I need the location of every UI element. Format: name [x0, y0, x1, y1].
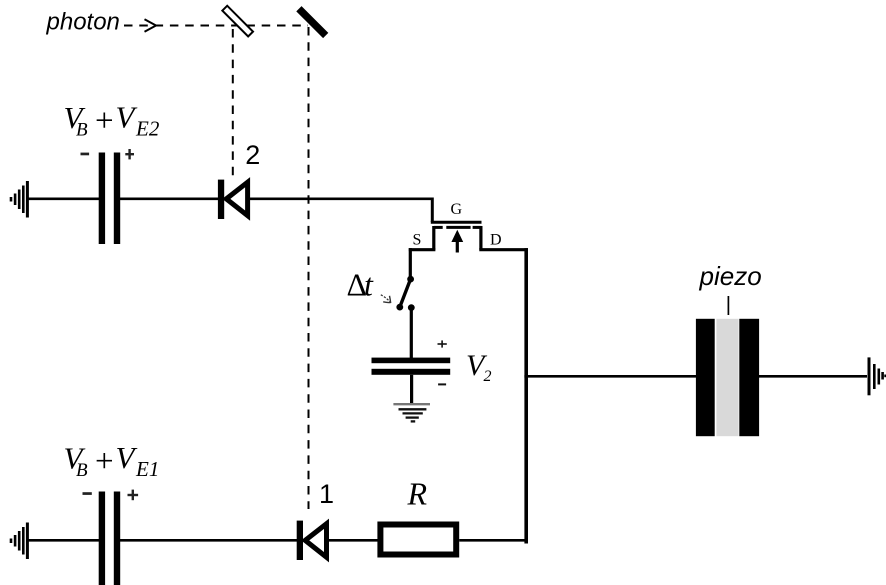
label 1	[319, 479, 334, 509]
wire ground to battery VB+VE2	[28, 198, 99, 201]
piezo label pointer	[727, 296, 729, 315]
switch S1	[396, 276, 414, 311]
wire ground to battery VB+VE1	[28, 539, 99, 542]
transistor Q1 source lead	[409, 226, 436, 250]
transistor Q1 bulk arrow	[451, 230, 463, 253]
ground below capacitor V2	[393, 404, 430, 421]
svg-text:D: D	[490, 232, 502, 249]
battery VB+VE1 polarity marks	[83, 490, 139, 501]
svg-text:+: +	[95, 103, 114, 139]
resistor R	[380, 525, 456, 555]
svg-text:t: t	[364, 267, 374, 303]
wire drain node to piezo	[524, 375, 696, 378]
label VB+VE2	[64, 100, 160, 141]
label VB+VE1	[64, 440, 160, 481]
wire piezo to right ground	[759, 375, 867, 378]
wire resistor to drain node	[459, 539, 528, 542]
wire dashed photon beam horizontal	[124, 25, 308, 27]
ground bottom-left	[11, 523, 27, 560]
svg-text:2: 2	[245, 140, 260, 170]
svg-text:photon: photon	[46, 9, 120, 36]
transistor Q1 drain lead	[479, 226, 528, 250]
label photon	[46, 9, 120, 36]
photon beam arrowhead	[145, 19, 157, 31]
mirror	[299, 9, 326, 36]
wire battery to photodiode 2	[120, 198, 218, 201]
photodiode 2	[218, 180, 248, 219]
svg-text:B: B	[76, 119, 88, 140]
beamsplitter	[222, 6, 253, 37]
transistor Q1 MOSFET channel (dashed)	[434, 226, 481, 229]
svg-text:2: 2	[484, 368, 492, 385]
capacitor V2 polarity marks	[438, 340, 447, 385]
svg-text:E2: E2	[135, 117, 160, 141]
svg-text:B: B	[76, 460, 88, 481]
pin label D	[490, 232, 502, 249]
svg-text:R: R	[407, 476, 428, 512]
label V2	[466, 349, 492, 385]
ground right	[869, 357, 886, 395]
wire drain down right side	[524, 248, 528, 543]
delta-t pointer arrow	[381, 295, 391, 303]
wire source to switch	[409, 248, 412, 280]
label R	[407, 476, 428, 512]
svg-text:E1: E1	[135, 457, 159, 481]
wire switch to capacitor V2	[410, 308, 413, 358]
ground top-left	[11, 181, 27, 218]
svg-text:V: V	[116, 440, 138, 475]
svg-text:G: G	[451, 201, 463, 218]
wire dashed beam to photodiode 2	[232, 29, 234, 176]
wire photodiode 1 to resistor R	[329, 539, 378, 542]
wire battery to photodiode 1	[120, 539, 297, 542]
capacitor C2 (V2)	[372, 358, 451, 375]
label delta-t	[347, 267, 375, 303]
label piezo	[699, 261, 762, 291]
svg-text:piezo: piezo	[699, 261, 762, 291]
battery VB+VE1	[99, 492, 121, 585]
transistor Q1 MOSFET gate lead	[431, 198, 434, 223]
photodiode 1	[297, 521, 327, 560]
transistor Q1 MOSFET gate bar	[431, 221, 482, 224]
pin label G	[451, 201, 463, 218]
svg-text:V: V	[116, 100, 138, 135]
wire capacitor to ground	[410, 375, 413, 404]
battery VB+VE2	[99, 153, 121, 245]
svg-text:+: +	[95, 444, 114, 480]
svg-text:S: S	[413, 232, 422, 249]
pin label S	[413, 232, 422, 249]
wire photodiode 2 to MOSFET gate	[250, 198, 434, 201]
label 2	[245, 140, 260, 170]
wire dashed beam to photodiode 1	[308, 27, 310, 509]
piezo transducer	[696, 319, 759, 436]
battery VB+VE2 polarity marks	[81, 149, 135, 159]
svg-text:1: 1	[319, 479, 334, 509]
